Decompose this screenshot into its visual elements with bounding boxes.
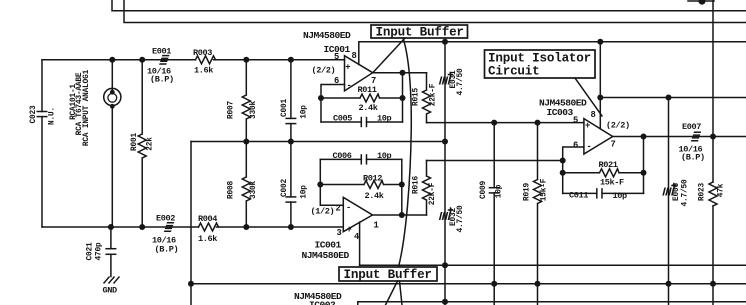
svg-text:22k: 22k <box>147 137 155 151</box>
capacitor E031 4.7/50 electrolytic column x=445 (upper) <box>444 42 446 305</box>
node junction dot wire B joins (562.7,160.5) <box>560 158 566 164</box>
svg-text:RCA INPUT ANALOG1: RCA INPUT ANALOG1 <box>83 69 91 146</box>
wire right feedback vertical x=643.5 <box>643 137 645 194</box>
node junction dot R001 column <box>139 57 145 63</box>
wire bus3 y=301.8 with pin8 drop of IC002 <box>358 302 746 305</box>
node junction dot E column / V- bus (445,265.3) <box>442 262 448 268</box>
svg-text:R003: R003 <box>193 48 212 58</box>
svg-text:E001: E001 <box>152 47 171 57</box>
capacitor C005 10p feedback line y=122 <box>321 121 403 123</box>
wire IC001 pin4 drop to V- bus <box>359 222 361 265</box>
svg-text:Input Isolator: Input Isolator <box>488 52 591 66</box>
node junction dot jack column <box>109 57 115 63</box>
connector RCA101-1 jack symbol <box>104 88 121 105</box>
node junction dot C001 column <box>288 57 294 63</box>
node junction dot R008 column bottom <box>243 224 249 230</box>
svg-text:6: 6 <box>573 141 578 151</box>
svg-text:-: - <box>347 81 352 91</box>
svg-text:4.7/50: 4.7/50 <box>682 179 690 206</box>
capacitor C011 10p feedback line y=193.4 <box>563 192 644 194</box>
op-amp U=IC003 (2/2) isolator triangle <box>584 119 613 154</box>
wire V+ rail y=41.7 with IC001 pin8 riser <box>359 42 746 65</box>
svg-text:R012: R012 <box>363 174 382 184</box>
svg-text:2.4k: 2.4k <box>365 191 384 201</box>
node junction dot R007 column <box>243 57 249 63</box>
svg-text:5: 5 <box>573 116 578 126</box>
svg-text:4.7/50: 4.7/50 <box>457 205 465 232</box>
resistor R012 2.4k feedback line y=184.5 <box>320 181 402 189</box>
svg-text:R021: R021 <box>599 160 618 170</box>
node junction dot V+ rail / IC003 pin8 <box>597 39 603 45</box>
svg-text:IC001: IC001 <box>315 240 342 251</box>
leader curve top box to bottom box <box>399 38 412 267</box>
svg-text:3: 3 <box>337 228 342 238</box>
node junction dot R019 / ground bus2 <box>535 281 541 287</box>
node junction dot mid bus / R007-R008 column <box>243 139 249 145</box>
svg-text:-: - <box>346 203 351 213</box>
wire IC003 output y=136.5 to right edge <box>613 136 746 138</box>
node junction dot at E006 column top (668.5,97.5) <box>666 95 672 101</box>
svg-text:47k: 47k <box>718 183 726 197</box>
capacitor C006 10p feedback line y=159.4 <box>320 158 402 160</box>
svg-text:Input Buffer: Input Buffer <box>344 268 432 282</box>
node junction dot C021 / jack column <box>108 224 114 230</box>
wire top rail 2 (from top edge, bends right) <box>124 0 746 23</box>
svg-text:NJM4580ED: NJM4580ED <box>303 30 351 41</box>
svg-text:NJM4580ED: NJM4580ED <box>539 98 587 109</box>
capacitor C009 10p column x=494.2 <box>493 123 495 305</box>
node junction dot R001 column bottom <box>139 224 145 230</box>
node junction dot output (643.5,136.5) <box>641 134 647 140</box>
svg-text:GND: GND <box>103 286 118 296</box>
capacitor C021 470p to ground <box>110 227 112 277</box>
wire V- bus1 y=265.3 from IC001 pin4 to right edge <box>360 264 746 266</box>
svg-text:15k-F: 15k-F <box>600 178 624 188</box>
node junction dot at (600.3,97.5) <box>597 95 603 101</box>
svg-text:R011: R011 <box>358 85 377 95</box>
leader lines bottom box to IC002 (off-page) <box>386 281 403 305</box>
leader line isolator box to IC003 <box>575 78 602 116</box>
svg-text:2.4k: 2.4k <box>359 103 378 113</box>
wire IC001 pin6 stub and feedback left vertical x=321 <box>321 85 345 123</box>
svg-text:-: - <box>587 142 592 152</box>
svg-text:22k-F: 22k-F <box>429 182 437 205</box>
svg-text:N.U.: N.U. <box>49 107 57 125</box>
node junction dot output / x713 net (713,136.5) <box>710 134 716 140</box>
svg-text:NJM4580ED: NJM4580ED <box>302 250 350 261</box>
wire bottom signal wire y=227 (RCA to IC001 pin3) <box>42 226 343 228</box>
svg-text:R016: R016 <box>413 176 421 194</box>
capacitor E007 electrolytic 10/16 B.P (series, output wire) <box>691 132 701 140</box>
svg-text:C011: C011 <box>569 191 588 201</box>
wire left input loop vertical x=42 with C023 <box>41 60 43 227</box>
svg-text:10p: 10p <box>496 184 504 198</box>
svg-text:10p: 10p <box>301 185 309 199</box>
svg-text:IC002: IC002 <box>309 300 336 305</box>
node junction dot (401.8,184.5) <box>399 182 405 188</box>
resistor R016 22k-F (output up to wire B) <box>423 161 431 216</box>
svg-text:330k: 330k <box>250 181 258 199</box>
resistor R015 22k-F (output down to + wire) <box>423 73 431 123</box>
node junction dot C009 / ground bus2 <box>491 281 497 287</box>
svg-text:+: + <box>345 63 350 73</box>
svg-text:(2/2): (2/2) <box>312 66 336 76</box>
resistor R007 330k (top wire to mid bus) <box>242 60 250 142</box>
svg-text:8: 8 <box>352 51 357 61</box>
svg-text:C002: C002 <box>281 179 289 197</box>
resistor R023 47k on x=713 net <box>709 182 717 206</box>
node junction dot V+ rail / E031 column <box>442 39 448 45</box>
svg-text:(B.P): (B.P) <box>155 245 179 255</box>
wire IC003 pin6 stub and inverting node vertical x=562.7 <box>563 147 584 193</box>
resistor R011 2.4k feedback line y=98 <box>321 94 403 102</box>
wire top rail 1 (from top edge, bends right) <box>112 0 746 11</box>
node top-edge junction dot <box>699 0 706 5</box>
svg-text:15k-F: 15k-F <box>541 178 549 201</box>
svg-text:R023: R023 <box>699 183 707 201</box>
svg-text:IC001: IC001 <box>324 44 351 55</box>
label box Input Buffer (bottom) <box>339 267 437 281</box>
resistor R001 22k (shunt column) <box>138 60 146 227</box>
wire IC001 upper output y=72.7 to R015 corner <box>373 72 427 74</box>
wire ground bus2 y=283.8 <box>191 283 746 285</box>
wire right feedback vertical x=401.8 <box>401 159 403 215</box>
node junction dot C002 column bottom <box>288 224 294 230</box>
wire top-edge stub with junction at (702,1) <box>688 0 714 2</box>
svg-text:(B.P): (B.P) <box>681 153 705 163</box>
svg-text:470p: 470p <box>96 242 104 260</box>
capacitor C023 (N.U.) <box>37 112 48 117</box>
node junction dot mid bus / C001-C002 column <box>288 139 294 145</box>
capacitor E006 4.7/50 electrolytic column x=668.5 <box>668 98 670 305</box>
svg-text:IC003: IC003 <box>547 107 574 118</box>
op-amp U=IC001 (2/2) upper buffer triangle <box>345 56 373 91</box>
node junction dot R021 line joins (562.7,172.8) <box>560 170 566 176</box>
connector RCA101-1 jack column <box>111 60 113 227</box>
wire vertical net x=713 from top edge down to output node and bottom edge <box>712 0 714 182</box>
op-amp U=IC001 (1/2) lower buffer triangle <box>343 197 372 231</box>
svg-text:C005: C005 <box>333 114 352 124</box>
label box Input Buffer (top) <box>371 25 468 38</box>
wire IC001 lower output y=215 to R016 corner <box>373 214 427 216</box>
node junction dot (320.3,184.5) <box>317 182 323 188</box>
svg-text:8: 8 <box>591 110 596 120</box>
svg-text:1.6k: 1.6k <box>198 234 217 244</box>
svg-text:1.6k: 1.6k <box>194 66 213 76</box>
svg-text:+: + <box>585 121 590 131</box>
wire IC003 noninverting (+) wire y=122.6 <box>427 122 584 124</box>
svg-text:Input Buffer: Input Buffer <box>376 26 464 40</box>
node junction dot mid bus leg / ground bus2 <box>188 281 194 287</box>
capacitor C002 10p (mid bus to bottom wire) <box>290 142 292 228</box>
node junction dot R021 right (643.5,172.8) <box>641 170 647 176</box>
svg-text:R008: R008 <box>228 181 236 199</box>
svg-text:(1/2): (1/2) <box>311 207 335 217</box>
node junction dot R023 / ground bus2 <box>710 281 716 287</box>
wire B y=160.5 (R016 to IC003 inverting node) <box>427 160 563 162</box>
svg-text:10p: 10p <box>301 105 309 119</box>
svg-text:R001: R001 <box>131 133 139 151</box>
ground symbol GND <box>104 277 120 284</box>
node junction dot E column / mid bus (445,141.5) <box>442 139 448 145</box>
wire IC003 pin8 riser x=600.3 <box>599 42 601 129</box>
svg-text:7: 7 <box>611 140 616 150</box>
resistor R021 15k-F feedback line y=172.8 <box>563 169 644 177</box>
svg-text:C001: C001 <box>281 99 289 117</box>
svg-text:C006: C006 <box>333 151 352 161</box>
node junction dot (321,98) <box>318 95 324 101</box>
svg-text:C023: C023 <box>30 105 38 123</box>
svg-text:22k-F: 22k-F <box>430 83 438 106</box>
svg-text:C009: C009 <box>480 181 488 199</box>
wire mid bus left leg x=191 down to bottom edge <box>190 142 192 305</box>
svg-text:+: + <box>347 225 352 235</box>
resistor R008 330k (mid bus to bottom wire) <box>242 142 250 228</box>
svg-text:E007: E007 <box>682 122 701 132</box>
capacitor E002 electrolytic 10/16 B.P (series, bottom wire) <box>164 223 174 231</box>
capacitor C001 10p (top wire to mid bus) <box>290 60 292 142</box>
node junction dot (402.5,98) <box>400 95 406 101</box>
svg-text:330k: 330k <box>250 101 258 119</box>
svg-text:C021: C021 <box>87 242 95 260</box>
capacitor E001 electrolytic 10/16 B.P (series, on top wire) <box>159 56 169 64</box>
wire output feedback vertical x=402.5 <box>402 73 404 122</box>
wire top signal wire y=59.8 (RCA input to IC001 pin5) <box>42 59 345 61</box>
svg-text:R019: R019 <box>524 183 532 201</box>
leader line top box to IC001 upper apex <box>374 38 406 72</box>
node junction dot C009 top <box>491 120 497 126</box>
svg-text:E006: E006 <box>673 183 681 201</box>
resistor R004 1.6k (series, bottom wire) <box>199 223 219 231</box>
svg-text:Circuit: Circuit <box>488 65 540 79</box>
wire mid ground bus y=141.5 from corner x=191 to E column <box>191 141 445 143</box>
wire bias rail y=97.5 from IC003 pin8 riser to right edge <box>600 97 746 99</box>
svg-text:(B.P): (B.P) <box>150 75 174 85</box>
node junction dot output (402.5,72.7) <box>400 70 406 76</box>
svg-text:R007: R007 <box>228 101 236 119</box>
svg-text:R015: R015 <box>413 88 421 106</box>
node junction dot E column / bus3 (445,301.8) <box>442 299 448 305</box>
svg-text:10p: 10p <box>613 191 628 201</box>
node junction dot R019 top <box>535 120 541 126</box>
node junction dot output (401.8,215) <box>399 212 405 218</box>
svg-text:R004: R004 <box>198 214 217 224</box>
svg-text:10p: 10p <box>377 114 392 124</box>
svg-text:10p: 10p <box>377 151 392 161</box>
svg-text:4.7/50: 4.7/50 <box>457 68 465 95</box>
label box Input Isolator Circuit <box>485 50 596 78</box>
resistor R019 15k-F column x=537.5 <box>534 123 542 305</box>
wire IC001 pin2 stub and feedback left vertical x=320.3 <box>320 159 343 205</box>
resistor R003 1.6k (series, top wire) <box>196 56 216 64</box>
svg-text:(2/2): (2/2) <box>606 121 630 131</box>
node junction dot E006 / ground bus2 <box>666 281 672 287</box>
svg-text:E002: E002 <box>156 214 175 224</box>
capacitor E032 4.7/50 electrolytic column x=445 (lower) <box>440 212 451 220</box>
svg-text:1: 1 <box>374 221 379 231</box>
